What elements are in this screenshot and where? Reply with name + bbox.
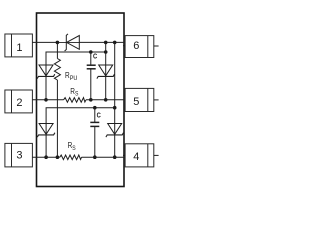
resistor R_S1 zigzag: [64, 98, 86, 103]
wire Z3 bottom to bottom row: [45, 135, 47, 157]
capacitor C1 plates: [87, 64, 96, 66]
zener diode Z4 lower-right triangle: [108, 124, 122, 135]
pin 1 box: [5, 34, 33, 57]
svg-text:C: C: [97, 110, 102, 119]
wire Z1 bottom to middle row: [45, 76, 47, 99]
node junction dot lower sub-row x=114.7: [113, 106, 117, 110]
zener diode Z2 bar: [97, 74, 115, 78]
node junction dot bottom row x=57.4: [56, 155, 60, 159]
svg-text:5: 5: [133, 96, 139, 108]
wire bottom row right (pin 4): [82, 156, 125, 158]
node junction dot middle row x=105.7: [104, 98, 108, 102]
capacitor C2 top wire: [94, 108, 96, 123]
IC package outline: [37, 13, 125, 187]
wire bottom row left (pin 3): [32, 156, 59, 158]
svg-text:6: 6: [133, 40, 139, 52]
node junction dot cap C1 top: [89, 50, 93, 54]
svg-text:C: C: [93, 52, 98, 61]
node junction dot bottom row x=46.1: [44, 155, 48, 159]
diode D1 triangle: [67, 36, 80, 50]
wire middle row left (pin 2): [32, 99, 63, 101]
diode D1 cathode bar: [65, 34, 68, 51]
wire middle row right (pin 5): [86, 99, 124, 101]
pin 6 outer stub: [154, 45, 159, 47]
zener diode Z3 lower-left triangle: [39, 124, 53, 135]
node junction dot lower cap top: [93, 106, 97, 110]
svg-text:4: 4: [133, 151, 139, 163]
capacitor C1 bottom wire: [90, 69, 92, 100]
pin 5 box: [125, 88, 154, 111]
wire right zener column top: [105, 42, 107, 76]
pin 6 box: [125, 36, 154, 58]
wire diode to pin6 segment: [79, 41, 124, 43]
node C junction dot top row x=114.7: [113, 41, 117, 45]
pin 2 box: [5, 90, 33, 113]
wire lower sub-row: [46, 108, 115, 135]
zener diode Z4 bar: [106, 133, 124, 137]
pin 4 outer stub: [154, 154, 159, 156]
svg-text:2: 2: [16, 97, 22, 109]
wire pin1 link: [32, 41, 57, 43]
wire bypass column x=114.7: [114, 42, 116, 107]
zener diode Z3 bar: [37, 133, 55, 137]
wire lower-right zener top: [114, 108, 116, 135]
wire pin 4 jog link: [123, 154, 125, 156]
node junction dot middle row x=46: [44, 98, 48, 102]
wire R_PU bottom long to bottom row: [56, 80, 58, 157]
node junction dot sub-row right: [104, 50, 108, 54]
node junction dot bottom row cap: [93, 155, 97, 159]
svg-text:1: 1: [16, 42, 22, 54]
node B junction dot top row x=105.7: [104, 41, 108, 45]
node junction dot bottom row x=114.7: [113, 155, 117, 159]
wire R_PU top: [56, 42, 58, 58]
svg-text:3: 3: [16, 149, 22, 161]
wire pin 6 jog link: [123, 45, 125, 47]
wire upper sub-row: [46, 52, 106, 76]
resistor R_PU zigzag: [54, 59, 60, 81]
pin 4 box: [125, 144, 154, 167]
resistor R_S2 zigzag: [60, 155, 82, 160]
node junction dot middle row cap: [89, 98, 93, 102]
zener diode Z1 upper-left triangle: [39, 65, 53, 76]
capacitor C2 plates: [90, 121, 99, 123]
node A junction dot pin1 row: [56, 41, 60, 45]
pin 3 box: [5, 143, 33, 167]
wire dot to diode D1 (continuous behind symbol): [57, 41, 79, 43]
capacitor C1 top wire: [90, 52, 92, 65]
wire Z2 bottom to middle row: [105, 76, 107, 99]
capacitor C2 bottom wire: [94, 126, 96, 157]
wire Z4 bottom to bottom row: [114, 135, 116, 157]
zener diode Z1 bar: [37, 74, 55, 78]
pin 5 outer stub: [154, 99, 159, 101]
zener diode Z2 upper-right triangle: [99, 65, 113, 76]
